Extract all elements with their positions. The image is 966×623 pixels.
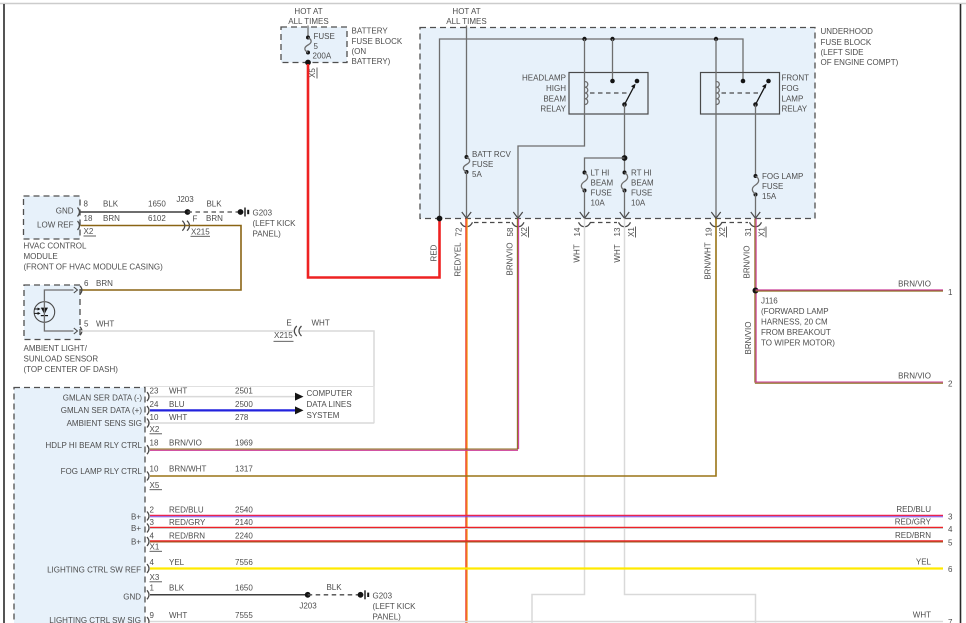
battery fuse block label: [352, 27, 403, 66]
computer data lines label: [307, 389, 353, 420]
splice J203 module: [305, 592, 311, 598]
connector X5 label module: [150, 481, 163, 490]
svg-text:10: 10: [150, 413, 159, 422]
contact dot fog relay NO: [766, 79, 771, 84]
svg-text:RED/BRN: RED/BRN: [895, 531, 931, 540]
pin labels left column: [46, 394, 143, 623]
svg-text:1: 1: [150, 584, 155, 593]
svg-text:24: 24: [150, 400, 159, 409]
wire BRN/WHT 19 vertical: [150, 219, 716, 477]
connector bracket 31: [750, 222, 762, 226]
svg-text:LT HI: LT HI: [591, 169, 610, 178]
svg-text:PANEL): PANEL): [253, 230, 282, 239]
wire BRN/VIO 1969: [150, 449, 518, 450]
svg-text:B+: B+: [131, 524, 141, 533]
svg-text:WHT: WHT: [169, 413, 187, 422]
svg-text:RT HI: RT HI: [631, 169, 652, 178]
svg-text:FUSE BLOCK: FUSE BLOCK: [352, 37, 403, 46]
connector bracket 14: [579, 222, 591, 226]
wire bus to headlamp relay coil: [584, 39, 586, 105]
pin 18 connector arc: [78, 221, 80, 230]
wire RED from battery fuse block to underhood fuse block: [308, 64, 440, 278]
svg-text:COMPUTER: COMPUTER: [307, 389, 353, 398]
ground G203: [238, 208, 249, 217]
svg-text:YEL: YEL: [916, 558, 932, 567]
coil fog relay: [716, 82, 719, 105]
svg-text:10A: 10A: [591, 199, 606, 208]
wire RED/BRN 2240: [150, 541, 943, 542]
svg-text:RELAY: RELAY: [540, 105, 566, 114]
svg-text:FRONT: FRONT: [782, 74, 810, 83]
svg-text:BRN/VIO: BRN/VIO: [744, 322, 753, 355]
svg-text:WHT: WHT: [312, 319, 330, 328]
svg-text:6: 6: [948, 565, 953, 574]
svg-text:200A: 200A: [313, 52, 332, 61]
svg-text:BRN/VIO: BRN/VIO: [505, 243, 514, 276]
connector X2 label: [520, 227, 529, 238]
pin 5 connector: [74, 327, 82, 335]
contact dot headlamp relay NO: [635, 79, 640, 84]
dashed actuation link: [590, 92, 627, 94]
svg-text:E: E: [286, 319, 291, 328]
svg-text:J203: J203: [299, 602, 317, 611]
svg-text:1650: 1650: [235, 584, 253, 593]
contact dot fog relay feed: [741, 79, 746, 84]
connector X5 label: [308, 68, 317, 79]
wire BATT RCV fuse to exit 72: [466, 172, 468, 217]
svg-text:HARNESS, 20 CM: HARNESS, 20 CM: [761, 318, 828, 327]
connector X2 label module: [150, 425, 163, 434]
op-amp relay U2: front fog lamp relay: [701, 73, 780, 115]
svg-text:2501: 2501: [235, 386, 253, 395]
svg-text:UNDERHOOD: UNDERHOOD: [821, 27, 874, 36]
wire RED/BLU 2540: [150, 515, 943, 516]
relay label FRONT FOG LAMP RELAY: [782, 74, 810, 114]
junction dot bus to fog relay coil: [714, 37, 718, 41]
svg-text:FUSE: FUSE: [472, 160, 493, 169]
svg-text:8: 8: [84, 200, 89, 209]
svg-text:2240: 2240: [235, 531, 253, 540]
connector X1 label fog: [757, 227, 766, 238]
svg-text:10: 10: [150, 465, 159, 474]
svg-text:B+: B+: [131, 512, 141, 521]
svg-text:FUSE: FUSE: [314, 32, 335, 41]
arrow to computer data lines: [295, 406, 304, 414]
svg-text:2140: 2140: [235, 518, 253, 527]
svg-text:DATA LINES: DATA LINES: [307, 400, 352, 409]
wire RED/GRY 2140: [150, 527, 943, 528]
svg-text:(LEFT KICK: (LEFT KICK: [253, 219, 297, 228]
svg-text:7556: 7556: [235, 558, 253, 567]
svg-text:TO WIPER MOTOR): TO WIPER MOTOR): [761, 339, 835, 348]
pin 24 BLU 2500 labels: [150, 400, 254, 409]
svg-text:RELAY: RELAY: [782, 105, 808, 114]
svg-text:RED/BRN: RED/BRN: [169, 531, 205, 540]
svg-text:LAMP: LAMP: [782, 95, 804, 104]
junction dot bus to headlamp relay coil: [582, 37, 586, 41]
junction dot hi beam fuse split: [622, 155, 628, 161]
svg-text:BLK: BLK: [103, 200, 119, 209]
svg-text:J203: J203: [176, 195, 194, 204]
svg-text:GND: GND: [56, 207, 74, 216]
svg-text:MODULE: MODULE: [24, 252, 58, 261]
svg-text:BRN: BRN: [103, 214, 120, 223]
wire BRN/VIO to lamp 2: [755, 382, 943, 383]
svg-text:RED/BLU: RED/BLU: [896, 505, 931, 514]
svg-text:F: F: [193, 215, 198, 224]
svg-text:15A: 15A: [762, 192, 777, 201]
wire RED/YEL 72 vertical: [466, 219, 467, 623]
svg-text:X3: X3: [150, 573, 160, 582]
connector X215 F arcs: [182, 215, 210, 237]
svg-text:PANEL): PANEL): [373, 613, 402, 622]
svg-text:2: 2: [948, 380, 953, 389]
svg-text:BATTERY): BATTERY): [352, 57, 391, 66]
wire bus to headlamp relay switch contact: [612, 39, 614, 81]
svg-text:2500: 2500: [235, 400, 253, 409]
svg-text:BRN: BRN: [96, 279, 113, 288]
svg-text:5A: 5A: [472, 170, 482, 179]
svg-text:5: 5: [314, 42, 319, 51]
exit arrow 72: [462, 212, 471, 218]
wire sensor pin 5 internal: [44, 322, 73, 331]
svg-text:4: 4: [150, 531, 155, 540]
computer data lines box: [144, 387, 374, 424]
svg-text:B+: B+: [131, 538, 141, 547]
svg-text:FOG: FOG: [782, 84, 799, 93]
connector bracket 13: [619, 222, 631, 226]
svg-text:FUSE: FUSE: [762, 182, 783, 191]
photodiode symbol: [34, 302, 55, 323]
svg-text:BRN/VIO: BRN/VIO: [169, 438, 202, 447]
switch arm fog relay: [753, 84, 766, 107]
module box (body control): [14, 388, 145, 623]
svg-text:WHT: WHT: [613, 244, 622, 262]
connector bracket 72: [461, 222, 473, 226]
svg-text:278: 278: [235, 413, 249, 422]
svg-text:WHT: WHT: [96, 320, 114, 329]
svg-text:SUNLOAD SENSOR: SUNLOAD SENSOR: [24, 355, 99, 364]
svg-text:18: 18: [84, 214, 93, 223]
wire WHT from X215 E to module pin 10: [300, 331, 374, 423]
exit arrow 13: [620, 212, 629, 218]
svg-text:BLK: BLK: [206, 200, 222, 209]
wire YEL 7556: [150, 567, 943, 569]
svg-text:9: 9: [150, 611, 155, 620]
svg-text:1969: 1969: [235, 438, 253, 447]
wire BLU 2500: [150, 409, 295, 411]
svg-text:RED: RED: [429, 244, 438, 261]
svg-text:OF ENGINE COMPT): OF ENGINE COMPT): [821, 58, 899, 67]
svg-text:(FORWARD LAMP: (FORWARD LAMP: [761, 307, 829, 316]
svg-text:X1: X1: [757, 227, 766, 237]
svg-text:6: 6: [84, 279, 89, 288]
connector X1 label: [627, 227, 636, 238]
underhood fuse block label: [821, 27, 899, 67]
battery fuse block box: [281, 27, 347, 63]
pin 2 RED/BLU 2540 labels: [150, 506, 254, 515]
exit arrow 19: [711, 212, 720, 218]
svg-text:X2: X2: [84, 227, 94, 236]
dashed connector link 19-31: [722, 222, 749, 224]
svg-text:RED/GRY: RED/GRY: [895, 517, 932, 526]
wire headlamp relay coil to exit 58: [518, 105, 585, 218]
svg-text:BRN/VIO: BRN/VIO: [742, 246, 751, 279]
connector X2 label fog: [718, 227, 727, 238]
svg-text:(LEFT SIDE: (LEFT SIDE: [821, 48, 864, 57]
svg-text:X1: X1: [150, 543, 160, 552]
svg-text:RED/BLU: RED/BLU: [169, 506, 204, 515]
svg-text:X1: X1: [627, 227, 636, 237]
svg-text:3: 3: [150, 518, 155, 527]
pin 10 BRN/WHT 1317 labels: [150, 465, 254, 474]
pin 18 BRN/VIO 1969 labels: [150, 438, 254, 447]
ground G203 label module: [373, 592, 417, 622]
connector X1 label module: [150, 543, 163, 552]
exit arrow 14: [580, 212, 589, 218]
pin 10 WHT 278 labels: [150, 413, 249, 422]
svg-text:13: 13: [613, 227, 622, 236]
svg-text:1: 1: [948, 288, 953, 297]
svg-text:(FRONT OF HVAC MODULE CASING): (FRONT OF HVAC MODULE CASING): [24, 263, 164, 272]
pin 9 WHT 7555 labels: [150, 611, 254, 620]
wire fog relay coil to exit 19: [715, 105, 717, 218]
switch arm headlamp relay: [622, 84, 635, 107]
wire BRN/VIO to lamp 1: [756, 290, 944, 291]
wire RT HI BEAM fuse to exit 13: [624, 191, 626, 218]
svg-text:HEADLAMP: HEADLAMP: [522, 74, 566, 83]
svg-text:14: 14: [573, 227, 582, 236]
wire sensor pin 6 internal: [44, 290, 73, 322]
svg-text:BRN/WHT: BRN/WHT: [703, 242, 712, 279]
svg-text:5: 5: [948, 539, 953, 548]
dashed wire BLK to G203: [188, 211, 241, 213]
page top border: [0, 3, 966, 5]
svg-text:BLK: BLK: [326, 583, 342, 592]
svg-text:AMBIENT SENS SIG: AMBIENT SENS SIG: [67, 419, 142, 428]
dashed connector link 14-13: [590, 222, 617, 224]
svg-text:X2: X2: [520, 227, 529, 237]
svg-text:WHT: WHT: [572, 244, 581, 262]
pin 6 BRN labels: [84, 279, 113, 288]
svg-text:GMLAN SER DATA (-): GMLAN SER DATA (-): [63, 394, 143, 403]
svg-text:X215: X215: [191, 228, 210, 237]
junction dot battery fuse output: [305, 60, 311, 66]
wire BRN to ambient sensor: [81, 226, 242, 291]
svg-text:6102: 6102: [148, 214, 166, 223]
svg-text:HOT AT: HOT AT: [294, 7, 322, 16]
pin 18 BRN 6102 labels: [84, 214, 167, 223]
wire split to LT HI BEAM fuse: [585, 158, 625, 173]
sensor label: [24, 344, 119, 374]
svg-text:BEAM: BEAM: [591, 179, 614, 188]
svg-text:HOT AT: HOT AT: [452, 7, 480, 16]
ground G203 label: [253, 209, 297, 239]
svg-text:J116: J116: [761, 297, 778, 306]
svg-text:5: 5: [84, 320, 89, 329]
svg-text:18: 18: [150, 438, 159, 447]
svg-text:2: 2: [150, 506, 155, 515]
wire BRN 6102: [81, 225, 190, 227]
svg-text:BEAM: BEAM: [543, 95, 566, 104]
svg-text:72: 72: [454, 227, 463, 236]
svg-text:G203: G203: [253, 209, 273, 218]
connector X3 label module: [150, 573, 163, 582]
svg-text:ALL TIMES: ALL TIMES: [288, 17, 328, 26]
svg-text:2540: 2540: [235, 506, 253, 515]
svg-text:LIGHTING CTRL SW SIG: LIGHTING CTRL SW SIG: [49, 616, 141, 623]
pin 8 BLK 1650 labels: [84, 200, 167, 209]
fuse RT HI BEAM FUSE 10A: [621, 169, 654, 208]
dashed actuation link fog relay: [722, 92, 759, 94]
svg-text:X2: X2: [150, 425, 160, 434]
wire headlamp relay common to hi beam fuses: [624, 105, 626, 173]
svg-text:(TOP CENTER OF DASH): (TOP CENTER OF DASH): [24, 365, 119, 374]
pin 23 WHT 2501 labels: [150, 386, 254, 395]
wire WHT 2501: [150, 396, 295, 398]
wire top bus: [440, 39, 744, 219]
svg-text:HDLP HI BEAM RLY CTRL: HDLP HI BEAM RLY CTRL: [46, 441, 143, 450]
svg-text:LOW REF: LOW REF: [37, 221, 74, 230]
svg-text:23: 23: [150, 386, 159, 395]
HVAC control module box: [24, 196, 81, 239]
pin arcs module: [147, 392, 149, 623]
wire FOG LAMP fuse to exit 31: [755, 195, 757, 218]
svg-text:HIGH: HIGH: [546, 84, 566, 93]
pin 8 connector arc: [78, 208, 80, 217]
svg-text:FOG LAMP: FOG LAMP: [762, 172, 803, 181]
pin 6 connector: [74, 286, 82, 294]
fuse FUSE 5 200A: [305, 32, 335, 61]
svg-text:WHT: WHT: [913, 611, 931, 620]
svg-text:X2: X2: [718, 227, 727, 237]
relay label HEADLAMP HIGH BEAM RELAY: [522, 74, 567, 114]
coil headlamp relay: [585, 82, 588, 105]
fuse FOG LAMP FUSE 15A: [752, 172, 803, 201]
svg-text:BRN/VIO: BRN/VIO: [898, 280, 931, 289]
svg-text:WHT: WHT: [169, 386, 187, 395]
wire battery feed into fuse: [307, 26, 309, 38]
svg-text:X215: X215: [274, 331, 293, 340]
node HOT AT ALL TIMES (underhood feed): [446, 7, 486, 26]
svg-text:GMLAN SER DATA (+): GMLAN SER DATA (+): [61, 406, 143, 415]
svg-text:G203: G203: [373, 592, 393, 601]
svg-text:(ON: (ON: [352, 47, 367, 56]
svg-text:3: 3: [948, 513, 953, 522]
page left border: [3, 4, 5, 623]
svg-text:ALL TIMES: ALL TIMES: [446, 17, 486, 26]
fuse LT HI BEAM FUSE 10A: [581, 169, 613, 208]
wire WHT 278: [150, 422, 374, 424]
wire WHT 13 vertical: [625, 219, 756, 623]
svg-text:4: 4: [150, 558, 155, 567]
svg-text:FROM BREAKOUT: FROM BREAKOUT: [761, 328, 831, 337]
svg-text:SYSTEM: SYSTEM: [307, 411, 340, 420]
junction dot bus to headlamp relay switch: [610, 37, 614, 41]
connector bracket 58: [512, 222, 524, 226]
svg-text:X5: X5: [150, 481, 160, 490]
svg-text:BLU: BLU: [169, 400, 185, 409]
svg-text:7: 7: [948, 618, 953, 623]
connector bracket 19: [710, 222, 722, 226]
wire WHT 7555: [150, 621, 943, 623]
dashed wire BLK to G203 module: [308, 594, 361, 596]
junction dot bus left at box edge: [437, 216, 443, 222]
pin 1 BLK 1650 labels: [150, 584, 254, 593]
pin 4 YEL 7556 labels: [150, 558, 254, 567]
svg-text:BRN/VIO: BRN/VIO: [898, 372, 931, 381]
svg-text:1650: 1650: [148, 200, 166, 209]
fuse BATT RCV FUSE 5A: [463, 150, 511, 179]
svg-text:BRN: BRN: [206, 214, 223, 223]
svg-text:FUSE BLOCK: FUSE BLOCK: [821, 38, 872, 47]
node HOT AT ALL TIMES (battery feed): [288, 7, 328, 26]
svg-text:HVAC CONTROL: HVAC CONTROL: [24, 242, 88, 251]
splice J203: [185, 209, 191, 215]
op-amp relay U1: headlamp high beam relay: [569, 73, 648, 115]
svg-text:1317: 1317: [235, 465, 253, 474]
page right border: [960, 4, 962, 623]
wire BRN/VIO 31 vertical: [755, 219, 756, 383]
exit arrow 31: [751, 212, 760, 218]
dashed connector link 72-58: [474, 222, 510, 224]
wire fog relay common to fog lamp fuse: [755, 105, 757, 177]
ground G203 module: [358, 590, 369, 599]
svg-text:31: 31: [744, 227, 753, 236]
connector X215 E arcs: [274, 319, 302, 342]
svg-text:FUSE: FUSE: [631, 189, 652, 198]
connector X2 label HVAC: [84, 227, 97, 236]
svg-text:LIGHTING CTRL SW REF: LIGHTING CTRL SW REF: [47, 566, 141, 575]
svg-text:19: 19: [704, 227, 713, 236]
svg-text:FUSE: FUSE: [591, 189, 612, 198]
pin 3 RED/GRY 2140 labels: [150, 518, 254, 527]
svg-text:RED/YEL: RED/YEL: [453, 242, 462, 277]
svg-text:RED/GRY: RED/GRY: [169, 518, 206, 527]
svg-text:BEAM: BEAM: [631, 179, 654, 188]
wire BLK 1650 module: [150, 594, 308, 596]
svg-text:7555: 7555: [235, 611, 253, 620]
wire WHT from sensor to X215 E: [81, 330, 293, 332]
svg-text:(LEFT KICK: (LEFT KICK: [373, 602, 417, 611]
wire feed into BATT RCV fuse: [466, 26, 468, 158]
wire LT HI BEAM fuse to exit 14: [584, 191, 586, 218]
wire bus to fog relay coil: [715, 39, 717, 105]
svg-text:BATTERY: BATTERY: [352, 27, 389, 36]
underhood fuse block box: [420, 28, 815, 219]
svg-text:FOG LAMP RLY CTRL: FOG LAMP RLY CTRL: [61, 467, 143, 476]
HVAC module label: [24, 242, 164, 272]
svg-text:4: 4: [948, 525, 953, 534]
svg-text:YEL: YEL: [169, 558, 185, 567]
svg-text:BRN/WHT: BRN/WHT: [169, 465, 206, 474]
svg-text:GND: GND: [123, 592, 141, 601]
pin 4 RED/BRN 2240 labels: [150, 531, 254, 540]
J116 label: [761, 297, 835, 348]
wire BRN/VIO 58 vertical: [517, 219, 518, 450]
svg-text:BLK: BLK: [169, 584, 185, 593]
svg-text:WHT: WHT: [169, 611, 187, 620]
svg-text:BATT RCV: BATT RCV: [472, 150, 511, 159]
wire BLK 1650: [81, 211, 188, 213]
svg-text:AMBIENT LIGHT/: AMBIENT LIGHT/: [24, 344, 88, 353]
arrow to computer data lines: [295, 393, 304, 401]
splice J116: [753, 288, 759, 294]
svg-text:10A: 10A: [631, 199, 646, 208]
ambient light/sunload sensor box: [24, 285, 80, 340]
wire WHT 14 vertical: [532, 219, 585, 623]
svg-text:58: 58: [506, 227, 515, 236]
